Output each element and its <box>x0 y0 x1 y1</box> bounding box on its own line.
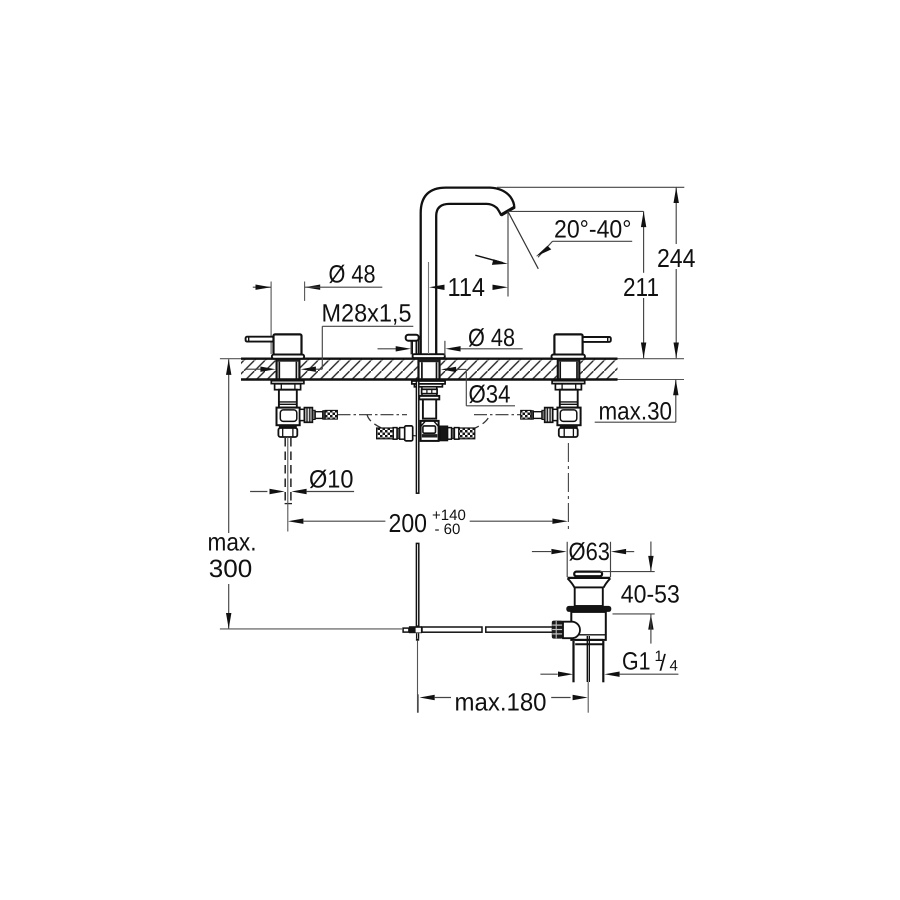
drain trumpet flange <box>568 578 611 588</box>
spout escutcheon flange <box>413 354 445 358</box>
svg-text:244: 244 <box>657 243 696 273</box>
left valve dashed inlet pipe O10 <box>285 438 292 504</box>
left valve centreline extension <box>287 437 289 532</box>
dim O63 <box>532 538 634 577</box>
svg-text:max.180: max.180 <box>455 688 547 716</box>
label M28x1,5 with leader <box>246 300 414 372</box>
svg-text:300: 300 <box>209 555 253 583</box>
deck hole right: edge bars and thread shadow <box>558 359 580 380</box>
svg-text:G1: G1 <box>622 648 651 676</box>
centre shank stack below deck <box>412 381 445 419</box>
deck top extension line right <box>618 358 685 360</box>
dim max.30 <box>595 380 679 426</box>
label 20-40 degrees with leader <box>536 216 632 258</box>
spout body <box>421 188 515 357</box>
deck hole center: edge bars and thread shadow <box>419 359 440 380</box>
dim 40-53 <box>600 542 680 644</box>
dim 114 <box>429 262 509 354</box>
deck bottom extension line right <box>618 379 685 381</box>
drain gasket ring <box>566 606 611 612</box>
svg-text:114: 114 <box>448 272 486 302</box>
dim 244 <box>657 187 696 358</box>
right handle lever <box>583 337 611 342</box>
pop-up lift rod upper segment <box>416 381 418 493</box>
svg-text:40-53: 40-53 <box>621 580 680 608</box>
left handle lever <box>246 337 274 342</box>
knurled clamp nut <box>552 621 563 639</box>
countertop deck slab <box>241 359 618 380</box>
left valve side outlet to hose <box>300 408 338 423</box>
spout outlet cut face <box>501 207 515 215</box>
drain pop-up waste: plug cap <box>574 572 602 577</box>
T left side fittings and hose <box>377 426 413 441</box>
drain body bottom joint <box>575 640 603 644</box>
svg-text:- 60: - 60 <box>435 521 461 538</box>
svg-text:211: 211 <box>623 272 659 302</box>
max.300 bottom reference line <box>220 628 403 630</box>
dim O48 left <box>253 261 382 290</box>
deck top extension line left <box>220 358 241 360</box>
right valve centreline (dash-dot) <box>567 443 569 531</box>
label O34 with leader <box>441 367 515 409</box>
svg-text:/: / <box>660 650 667 676</box>
centre T connector block <box>421 421 439 441</box>
right valve side outlet to hose <box>521 408 558 423</box>
dim O10 <box>250 466 354 495</box>
drain lower body <box>571 612 606 640</box>
pop-up lift rod lower segment <box>416 543 418 626</box>
label G1 1/4 <box>540 648 678 677</box>
rod clamp joint <box>403 626 422 641</box>
T right side fittings and hose <box>440 426 475 441</box>
right valve below deck <box>552 381 585 437</box>
svg-text:200: 200 <box>389 508 428 538</box>
dim 200 +140/-60 <box>288 507 568 538</box>
rod extension line below clamp <box>417 641 419 713</box>
outlet reference line 211 <box>508 210 644 212</box>
top reference line 244 <box>497 186 684 188</box>
left valve below deck <box>271 381 304 437</box>
dim 211 <box>623 211 659 358</box>
svg-text:4: 4 <box>670 658 678 675</box>
svg-text:M28x1,5: M28x1,5 <box>322 300 412 328</box>
extension line of left O48 dim (under lever) <box>270 282 272 355</box>
svg-text:Ø 48: Ø 48 <box>329 261 376 289</box>
svg-text:Ø 48: Ø 48 <box>468 324 515 352</box>
deck hole left: edge bars and thread shadow <box>277 359 300 380</box>
dashed hose centre ellipse <box>367 414 490 436</box>
svg-text:max.30: max.30 <box>599 398 673 426</box>
svg-text:20°-40°: 20°-40° <box>554 216 632 244</box>
svg-text:Ø10: Ø10 <box>309 466 354 494</box>
water stream line <box>508 211 538 268</box>
drain tailpipe G1 1/4 <box>574 641 604 682</box>
flow direction arc <box>475 255 508 265</box>
horizontal pop-up rod to drain <box>422 627 553 632</box>
dim max.180 <box>418 688 588 716</box>
left handle base flange <box>272 355 304 359</box>
plug stem <box>587 636 589 713</box>
left handle body <box>274 334 302 354</box>
hose centreline right (dash-dot) <box>474 414 521 416</box>
drain upper body <box>575 587 603 606</box>
right handle base flange <box>552 355 585 359</box>
svg-text:Ø63: Ø63 <box>569 538 611 566</box>
right handle body <box>554 334 582 354</box>
lift rod knob <box>406 335 419 355</box>
dim max.300 <box>208 359 257 629</box>
hose centreline left (dash-dot) <box>338 414 408 416</box>
dim O48 centre (spout base) <box>378 324 523 356</box>
ball joint housing <box>563 622 580 639</box>
svg-text:max.: max. <box>208 529 257 557</box>
svg-text:Ø34: Ø34 <box>469 380 511 408</box>
outlet vertical extension <box>507 211 509 296</box>
